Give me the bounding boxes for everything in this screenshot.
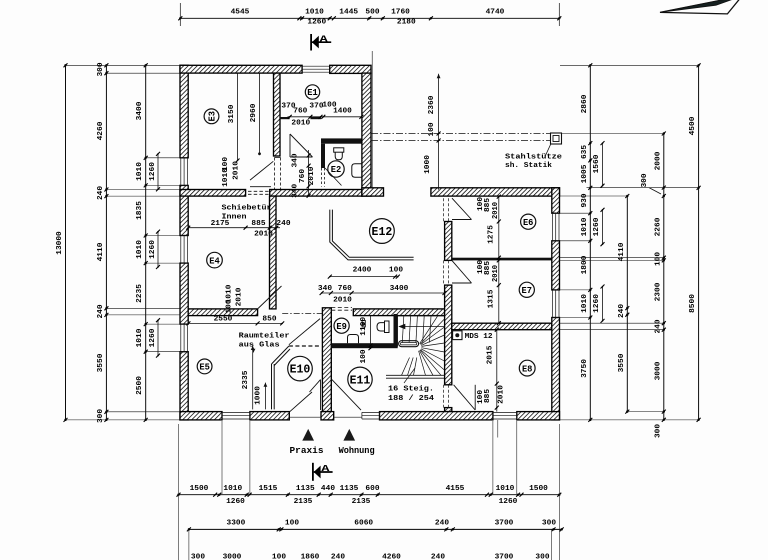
svg-text:4260: 4260 (382, 554, 401, 560)
svg-text:3400: 3400 (390, 285, 409, 293)
sink in E9 (348, 335, 359, 344)
wall y310 (E5/E9 level) (188, 309, 444, 316)
svg-text:100: 100 (428, 122, 436, 136)
svg-text:Praxis: Praxis (290, 445, 324, 456)
svg-text:Stahlstütze: Stahlstütze (505, 154, 563, 162)
right chain windows (588, 63, 592, 422)
svg-text:930: 930 (581, 193, 589, 207)
svg-text:2180: 2180 (397, 19, 416, 27)
exterior wall left (with window gaps) (180, 65, 188, 420)
svg-text:300: 300 (654, 424, 662, 438)
svg-text:300: 300 (97, 409, 105, 423)
door swing E10 lower (310, 380, 321, 410)
sliding door (Schiebetuer) dashed panel (248, 191, 271, 194)
left chain middle (104, 63, 108, 422)
label Praxis (290, 445, 324, 456)
svg-text:340: 340 (292, 184, 300, 198)
room label E6 (521, 214, 536, 229)
svg-text:300: 300 (191, 554, 205, 560)
windows right wall (552, 213, 559, 317)
svg-text:885: 885 (484, 198, 492, 212)
hall door dims 340 760 340 2010 (292, 150, 316, 198)
svg-text:1500: 1500 (190, 485, 209, 493)
svg-text:300: 300 (641, 173, 649, 187)
svg-text:1275: 1275 (488, 225, 496, 244)
wall E6/E7 thin (452, 258, 552, 261)
svg-text:100: 100 (477, 390, 485, 404)
dash-dot lines to steel column (371, 134, 551, 141)
exterior wall right of E1/E2 block (362, 73, 371, 196)
entrance arrow Praxis (302, 429, 314, 441)
svg-text:600: 600 (365, 485, 379, 493)
svg-text:2960: 2960 (250, 104, 258, 123)
svg-text:1100: 1100 (360, 317, 368, 336)
dim 2550 850 E5 top (186, 316, 284, 326)
svg-text:E11: E11 (350, 374, 371, 387)
top chain sub ticks (297, 16, 335, 20)
svg-text:240: 240 (618, 304, 626, 318)
bottom chain 1 windows doors (177, 493, 562, 497)
door swing E8 (444, 385, 476, 410)
svg-text:2010: 2010 (236, 288, 244, 307)
svg-text:440: 440 (321, 485, 335, 493)
svg-text:850: 850 (262, 316, 276, 324)
svg-text:100: 100 (654, 252, 662, 266)
right chain interior (662, 132, 666, 422)
svg-text:1005: 1005 (581, 165, 589, 184)
svg-text:1000: 1000 (255, 386, 263, 405)
svg-text:1315: 1315 (488, 290, 496, 309)
leader 300 wall (641, 173, 661, 194)
svg-text:1860: 1860 (301, 554, 320, 560)
room label E2 (328, 161, 344, 177)
staircase (386, 316, 444, 379)
Stahlstuetze label (505, 154, 563, 171)
glass element in E12 (330, 210, 414, 260)
E8 door dims (477, 328, 506, 412)
door swing E11 entrance (332, 380, 361, 411)
extension lines bottom (179, 420, 560, 560)
svg-text:2010: 2010 (333, 297, 352, 305)
svg-text:188 / 254: 188 / 254 (388, 395, 435, 403)
E3 door dims 100 1010 2010 (222, 157, 241, 187)
steel column leader (546, 144, 552, 156)
exterior wall right (with windows) (552, 188, 560, 420)
corridor wall E6/E7/E8 side (445, 222, 452, 412)
wall below E1 (thin) with door opening (280, 117, 321, 119)
north arrow (660, 0, 742, 14)
svg-text:2300: 2300 (654, 283, 662, 302)
Schiebetuer label (222, 205, 272, 222)
svg-text:E1: E1 (307, 88, 318, 98)
svg-text:1010: 1010 (496, 485, 515, 493)
svg-text:885: 885 (484, 261, 492, 275)
room label E7 (519, 282, 534, 297)
svg-text:1010: 1010 (581, 294, 589, 313)
svg-text:1260: 1260 (593, 218, 601, 237)
svg-text:2010: 2010 (498, 385, 506, 404)
right chain rooms (625, 194, 629, 414)
svg-text:2135: 2135 (352, 498, 371, 506)
extension lines left (66, 65, 180, 420)
svg-text:1135: 1135 (340, 485, 359, 493)
svg-text:A: A (321, 463, 329, 474)
E9 bottom wall (331, 343, 393, 348)
divider wall E10/E11 (322, 308, 331, 412)
room label E11 (348, 367, 372, 391)
svg-text:1800: 1800 (581, 256, 589, 275)
svg-text:1010: 1010 (136, 162, 144, 181)
svg-text:1010: 1010 (136, 240, 144, 259)
door swing in E3 above sliding door (250, 161, 273, 186)
room label E9 (334, 318, 349, 333)
Raumteiler aus Glas partition (E5/E10) (272, 346, 321, 409)
svg-text:1260: 1260 (149, 329, 157, 348)
svg-text:3000: 3000 (654, 362, 662, 381)
svg-text:1400: 1400 (333, 108, 352, 116)
left sub chain 1260 markers (149, 152, 160, 358)
svg-text:100: 100 (226, 299, 234, 313)
svg-text:240: 240 (97, 304, 105, 318)
svg-text:E9: E9 (336, 322, 347, 332)
section marker A bottom (312, 463, 333, 481)
svg-text:1010: 1010 (136, 329, 144, 348)
svg-text:Raumteiler: Raumteiler (239, 333, 290, 341)
MDS 12 label (465, 333, 494, 341)
svg-text:1500: 1500 (529, 485, 548, 493)
E9 right wall (394, 314, 398, 348)
E3 interior dim 2960 (250, 74, 261, 156)
svg-text:2015: 2015 (487, 346, 495, 365)
WC in E2 (334, 148, 344, 160)
svg-text:340: 340 (292, 153, 300, 167)
svg-text:760: 760 (299, 169, 307, 183)
entrance arrow Wohnung (343, 429, 355, 441)
exterior wall top (180, 65, 371, 73)
svg-text:2010: 2010 (291, 120, 310, 128)
door swing E1 to hall (290, 134, 313, 157)
svg-text:E7: E7 (522, 286, 533, 296)
svg-text:1000: 1000 (424, 155, 432, 174)
svg-text:1260: 1260 (149, 240, 157, 259)
svg-text:4110: 4110 (618, 243, 626, 262)
svg-text:E6: E6 (523, 218, 534, 228)
svg-text:4740: 4740 (486, 8, 505, 16)
svg-text:3750: 3750 (581, 359, 589, 378)
door swing E6 (444, 198, 472, 221)
svg-text:aus Glas: aus Glas (239, 342, 281, 350)
E9 dims 1100 100 (360, 316, 373, 364)
svg-text:sh. Statik: sh. Statik (505, 162, 553, 170)
top dimension chain (178, 16, 561, 20)
svg-text:1010: 1010 (223, 485, 242, 493)
window top wall E3 (302, 66, 330, 72)
svg-text:1260: 1260 (307, 19, 326, 27)
exterior wall bottom (180, 412, 560, 420)
svg-text:1260: 1260 (499, 498, 518, 506)
svg-text:1260: 1260 (593, 294, 601, 313)
label Wohnung (339, 445, 375, 456)
svg-text:500: 500 (365, 8, 379, 16)
svg-text:4260: 4260 (97, 122, 105, 141)
wall between E3 and E1 (274, 73, 281, 156)
svg-text:4500: 4500 (689, 117, 697, 136)
room label E10 (288, 356, 313, 381)
dashed door opening corridor-E9 (331, 308, 352, 311)
dim 2175 885 240 sliding door (186, 220, 290, 239)
svg-text:4545: 4545 (231, 8, 250, 16)
door swing E10 upper (289, 319, 320, 345)
E4 door dims (226, 285, 244, 314)
svg-text:Schiebetür: Schiebetür (222, 205, 272, 213)
svg-text:Wohnung: Wohnung (339, 445, 375, 456)
svg-text:1135: 1135 (296, 485, 315, 493)
E6 door dims (477, 195, 501, 260)
svg-text:760: 760 (338, 285, 352, 293)
svg-text:2135: 2135 (294, 498, 313, 506)
E3 interior dim 3150 (228, 74, 240, 163)
svg-text:240: 240 (276, 220, 290, 228)
svg-text:100: 100 (360, 349, 368, 363)
svg-text:240: 240 (97, 186, 105, 200)
windows bottom wall (222, 412, 517, 419)
svg-text:3550: 3550 (97, 354, 105, 373)
stairs label 16 Steig (388, 368, 435, 403)
entry door thresholds (289, 416, 362, 418)
room label E4 (207, 252, 223, 268)
svg-text:2500: 2500 (136, 376, 144, 395)
svg-text:100: 100 (285, 520, 299, 528)
svg-text:885: 885 (484, 389, 492, 403)
svg-text:16 Steig.: 16 Steig. (388, 386, 434, 394)
svg-text:240: 240 (431, 554, 445, 560)
room label E1 (305, 85, 319, 99)
svg-text:1010: 1010 (305, 8, 324, 16)
sink in E2 (352, 164, 362, 177)
dim 2335 E10 (242, 346, 255, 410)
wall E7/E8 (452, 323, 552, 330)
svg-text:2010: 2010 (308, 167, 316, 186)
room label E8 (519, 360, 535, 376)
svg-text:1760: 1760 (391, 8, 410, 16)
svg-text:2010: 2010 (254, 231, 273, 239)
E7 door dims (477, 258, 501, 325)
svg-text:2360: 2360 (428, 96, 436, 115)
svg-text:13000: 13000 (56, 231, 64, 255)
svg-text:885: 885 (251, 220, 265, 228)
svg-text:3700: 3700 (495, 520, 514, 528)
E12 top wall (with terrace opening) (362, 188, 560, 196)
E4 right wall (270, 196, 277, 309)
right chain totals (697, 63, 701, 422)
svg-text:1010: 1010 (222, 168, 230, 187)
svg-text:3150: 3150 (228, 105, 236, 124)
E12 dim 2400 100 (328, 267, 403, 279)
right sub chains 1560 1260 (593, 141, 605, 323)
svg-text:100: 100 (272, 554, 286, 560)
svg-text:3000: 3000 (223, 554, 242, 560)
shelf squares in E9 (362, 320, 365, 327)
svg-text:340: 340 (318, 285, 332, 293)
svg-text:E2: E2 (331, 165, 342, 175)
svg-text:2010: 2010 (492, 202, 500, 219)
svg-text:1010: 1010 (581, 218, 589, 237)
svg-text:1260: 1260 (149, 162, 157, 181)
svg-text:E3: E3 (207, 111, 217, 122)
WC in E9 (377, 321, 389, 333)
svg-text:2000: 2000 (654, 152, 662, 171)
E1 door dim texts (281, 102, 351, 128)
svg-text:370: 370 (309, 103, 323, 111)
svg-text:4110: 4110 (97, 243, 105, 262)
svg-text:2335: 2335 (242, 371, 250, 390)
svg-text:E5: E5 (199, 363, 210, 373)
svg-text:760: 760 (293, 108, 307, 116)
svg-text:2260: 2260 (654, 218, 662, 237)
terrace dims 2360 100 1000 (424, 74, 441, 190)
dashed opening below E3/E1 wall (275, 158, 281, 197)
MDS 12 box (453, 331, 462, 340)
svg-text:1445: 1445 (339, 8, 358, 16)
open passage dash-dot lines near E10 (282, 312, 322, 314)
bottom chain 2 (187, 527, 564, 531)
svg-text:E12: E12 (372, 226, 393, 239)
extension lines right (560, 65, 699, 420)
E12 dim 340 760 3400 (318, 285, 447, 305)
svg-text:300: 300 (542, 520, 556, 528)
E2 left wall (321, 144, 325, 187)
svg-text:300: 300 (97, 62, 105, 76)
svg-text:240: 240 (654, 319, 662, 333)
svg-text:1560: 1560 (593, 155, 601, 174)
svg-text:3300: 3300 (227, 520, 246, 528)
svg-text:E4: E4 (209, 256, 220, 266)
svg-text:240: 240 (435, 520, 449, 528)
room label E12 (370, 219, 395, 244)
E2 top wall (321, 138, 362, 143)
svg-text:3400: 3400 (136, 102, 144, 121)
svg-text:2860: 2860 (581, 95, 589, 114)
svg-text:2010: 2010 (233, 161, 241, 180)
svg-text:2235: 2235 (136, 284, 144, 303)
svg-text:3550: 3550 (618, 354, 626, 373)
door swing E2 (325, 168, 342, 186)
dim 1000 E10 (255, 383, 268, 410)
left chain windows (144, 63, 148, 422)
interior wall y190 left part with sliding door (180, 190, 362, 197)
room label E3 (204, 109, 219, 124)
svg-text:4155: 4155 (446, 485, 465, 493)
section marker A top (310, 33, 331, 50)
svg-text:635: 635 (581, 145, 589, 159)
Raumteiler aus Glas label (239, 333, 290, 353)
svg-text:E10: E10 (290, 364, 311, 377)
svg-text:1260: 1260 (226, 498, 245, 506)
svg-text:3700: 3700 (495, 554, 514, 560)
door swing E7 (444, 260, 472, 285)
bottom chain1 sub ticks (213, 493, 523, 497)
svg-text:2175: 2175 (211, 220, 230, 228)
svg-text:8500: 8500 (689, 294, 697, 313)
room label E5 (197, 359, 212, 374)
svg-text:240: 240 (331, 554, 345, 560)
svg-text:300: 300 (535, 554, 549, 560)
svg-text:2010: 2010 (492, 265, 500, 282)
steel column (Stahlstuetze) (551, 133, 562, 144)
svg-text:100: 100 (389, 267, 403, 275)
svg-text:1515: 1515 (259, 485, 278, 493)
left chain 13000 (64, 63, 68, 422)
door swing E4 (850 door) (258, 286, 282, 309)
svg-text:1835: 1835 (136, 201, 144, 220)
svg-text:2400: 2400 (353, 267, 372, 275)
svg-text:6060: 6060 (354, 520, 373, 528)
svg-text:MDS 12: MDS 12 (465, 333, 494, 341)
svg-text:A: A (320, 33, 328, 44)
svg-text:E8: E8 (522, 364, 533, 374)
door swing vestibule Praxis (290, 392, 312, 412)
extension lines top (180, 3, 559, 188)
windows left wall (181, 158, 188, 352)
svg-text:2550: 2550 (214, 316, 233, 324)
